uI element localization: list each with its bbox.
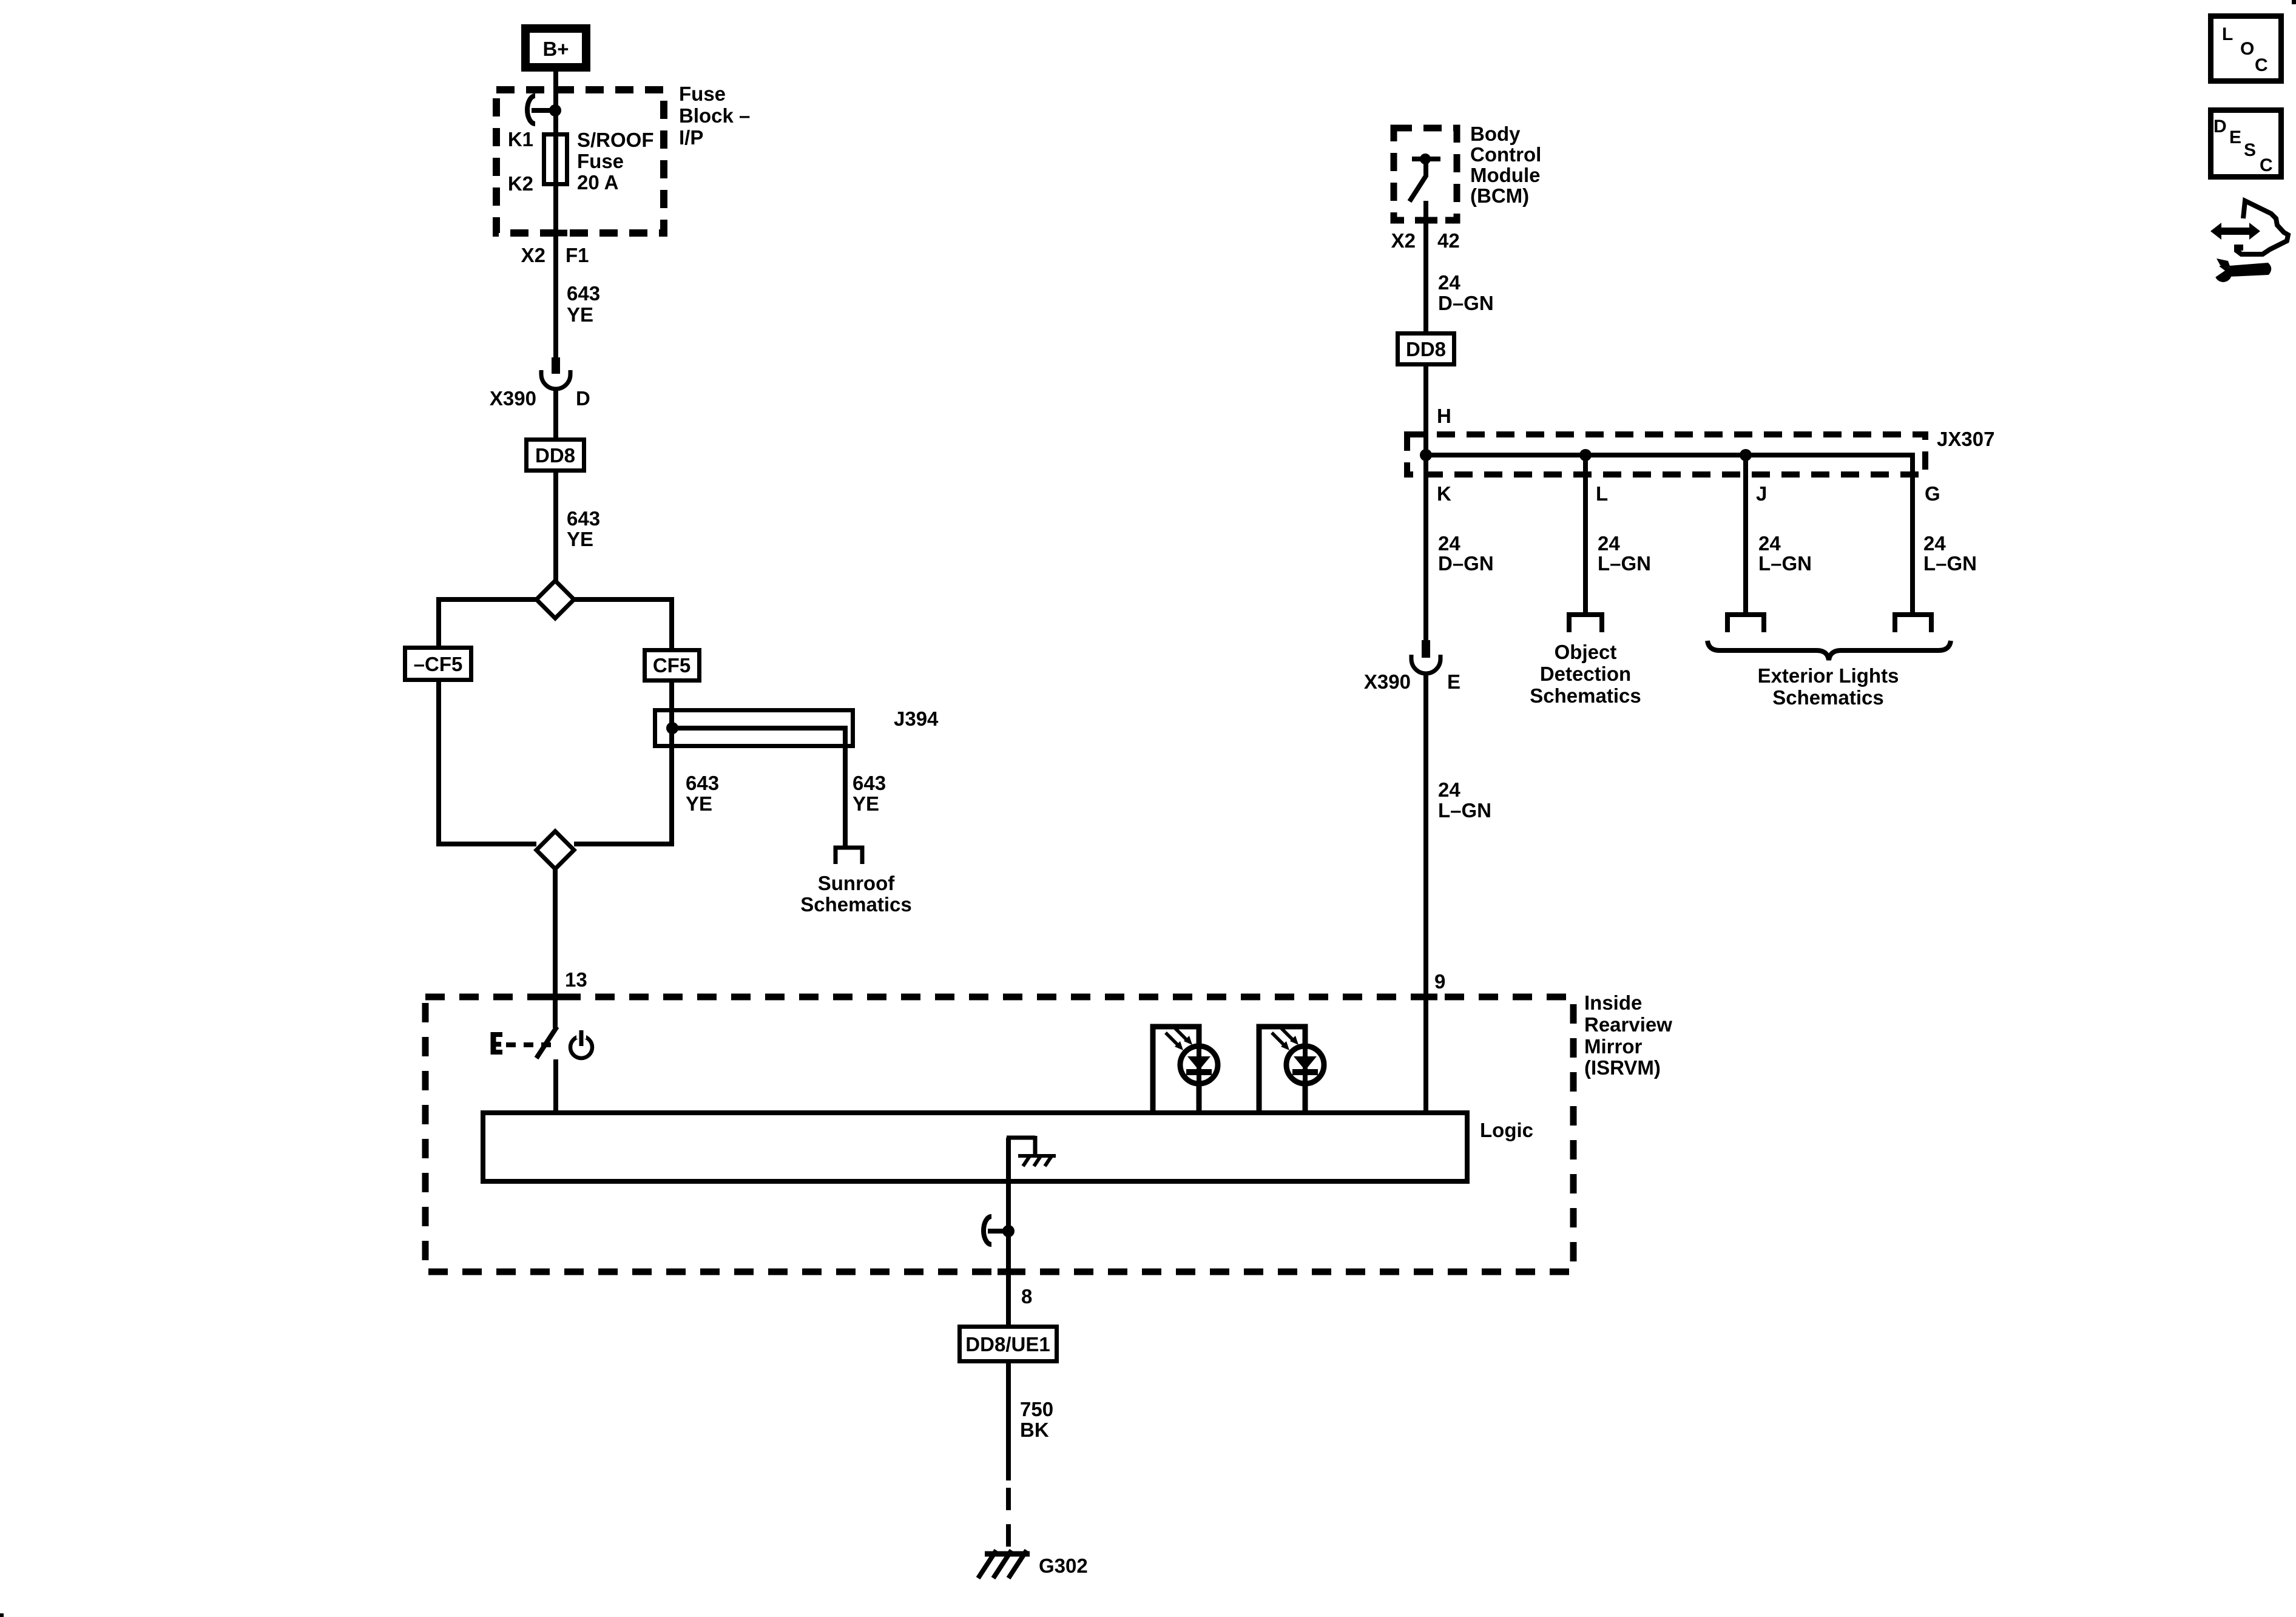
icon wrench <box>2211 258 2271 282</box>
actuator dashed link <box>506 1042 551 1047</box>
svg-text:L: L <box>2222 24 2233 44</box>
wire L to object detection <box>1583 455 1588 613</box>
label Inside Rearview Mirror (ISRVM) <box>1584 991 1672 1079</box>
fuse S/ROOF 20A <box>544 135 567 184</box>
svg-text:L: L <box>1596 482 1608 505</box>
logic box <box>483 1113 1467 1181</box>
svg-text:(ISRVM): (ISRVM) <box>1584 1056 1661 1079</box>
connector to object detection <box>1569 615 1602 632</box>
svg-text:L–GN: L–GN <box>1758 552 1812 575</box>
wire E to ISRVM pin 9 <box>1423 673 1428 1113</box>
svg-text:DD8: DD8 <box>535 444 575 467</box>
power feed B+ box <box>525 29 586 67</box>
svg-text:Fuse: Fuse <box>577 150 624 172</box>
label Exterior Lights Schematics <box>1758 664 1899 709</box>
svg-text:J: J <box>1756 482 1767 505</box>
svg-text:Schematics: Schematics <box>1530 684 1641 707</box>
svg-text:Inside: Inside <box>1584 991 1642 1014</box>
svg-text:X2: X2 <box>521 244 545 266</box>
label 24 L-GN (J) <box>1758 532 1812 575</box>
svg-text:24: 24 <box>1438 271 1460 294</box>
junction dot J394 <box>666 722 678 734</box>
junction dot fuse feed <box>549 104 561 116</box>
fuse code -CF5 box <box>405 648 471 680</box>
svg-text:H: H <box>1437 405 1451 427</box>
wire left branch upper <box>439 599 536 646</box>
wire left branch lower <box>439 682 536 844</box>
svg-text:C: C <box>2260 155 2273 175</box>
label Fuse Block - I/P <box>679 83 750 149</box>
svg-text:Object: Object <box>1555 641 1617 663</box>
svg-text:X390: X390 <box>1364 670 1411 693</box>
svg-text:K1: K1 <box>508 128 533 150</box>
wire DD8 to diamond <box>553 473 558 581</box>
icon DESC <box>2211 110 2281 177</box>
tick wire 42 crosses BCM border <box>1415 217 1437 224</box>
svg-text:JX307: JX307 <box>1937 428 1994 450</box>
svg-text:E: E <box>2229 127 2241 147</box>
connector to exterior lights (G) <box>1895 615 1931 632</box>
wire right branch lower <box>574 682 672 844</box>
svg-text:Schematics: Schematics <box>800 893 911 916</box>
label 750 BK <box>1020 1398 1053 1441</box>
junction block JX307 dashed box <box>1407 434 1925 474</box>
internal ground symbol <box>1007 1136 1056 1166</box>
tick wire 13 crosses ISRVM border <box>544 994 567 1001</box>
wire right branch upper <box>574 599 672 648</box>
ground G302 <box>978 1550 1030 1578</box>
splice code DD8 box (BCM branch) <box>1398 334 1454 365</box>
wire below switch to logic <box>553 1059 558 1113</box>
connector to sunroof schematics <box>836 848 862 864</box>
label 643 YE (3) <box>686 772 719 815</box>
svg-text:X390: X390 <box>490 387 536 410</box>
dashed wire to G302 <box>1006 1488 1011 1548</box>
ISRVM dashed box <box>425 997 1573 1272</box>
label 24 D-GN (K) <box>1438 532 1494 575</box>
splice code DD8 box <box>527 440 584 471</box>
BCM output driver switch <box>1410 154 1440 201</box>
wire DD8/UE1 to ground <box>1006 1363 1011 1480</box>
fuse code CF5 box <box>645 650 700 681</box>
label 24 L-GN (E) <box>1438 778 1491 822</box>
svg-text:Sunroof: Sunroof <box>818 872 895 894</box>
svg-text:CF5: CF5 <box>653 654 690 677</box>
svg-text:24: 24 <box>1923 532 1946 555</box>
svg-text:8: 8 <box>1021 1285 1032 1308</box>
svg-text:B+: B+ <box>542 38 569 60</box>
svg-text:Body: Body <box>1470 123 1521 145</box>
svg-text:750: 750 <box>1020 1398 1053 1420</box>
svg-text:643: 643 <box>567 507 600 530</box>
wire B+ down through fuse to connector X390 <box>553 72 558 359</box>
corner mark bottom left <box>0 1613 4 1617</box>
connector to exterior lights (J) <box>1727 615 1764 632</box>
JX307 bus wire <box>1426 455 1913 613</box>
svg-text:24: 24 <box>1438 778 1460 801</box>
svg-text:E: E <box>1447 670 1460 693</box>
svg-text:F1: F1 <box>566 244 589 266</box>
wire BCM pin 42 <box>1423 201 1428 334</box>
BCM dashed box <box>1394 128 1457 220</box>
svg-text:Exterior Lights: Exterior Lights <box>1758 664 1899 687</box>
svg-text:S: S <box>2244 140 2256 160</box>
svg-text:–CF5: –CF5 <box>414 653 463 675</box>
svg-text:Rearview: Rearview <box>1584 1013 1672 1036</box>
svg-text:24: 24 <box>1758 532 1781 555</box>
junction dot K <box>1420 449 1432 461</box>
svg-text:S/ROOF: S/ROOF <box>577 129 654 151</box>
fuse block I/P dashed box <box>496 90 664 233</box>
connector X390 pin D <box>541 357 570 389</box>
svg-text:K: K <box>1437 482 1451 505</box>
fuse clip symbol <box>527 96 535 124</box>
label 24 L-GN (G) <box>1923 532 1977 575</box>
svg-text:J394: J394 <box>894 707 939 730</box>
svg-text:20 A: 20 A <box>577 171 618 194</box>
svg-text:643: 643 <box>853 772 886 794</box>
svg-text:C: C <box>2255 55 2268 75</box>
svg-text:Fuse: Fuse <box>679 83 726 105</box>
icon data link connector outline <box>2237 201 2288 254</box>
svg-text:YE: YE <box>686 792 712 815</box>
svg-text:Logic: Logic <box>1480 1119 1533 1141</box>
wire X390 to DD8 <box>553 389 558 440</box>
brace exterior lights <box>1707 641 1951 660</box>
svg-text:G302: G302 <box>1039 1555 1088 1577</box>
svg-text:I/P: I/P <box>679 126 703 149</box>
svg-text:BK: BK <box>1020 1419 1049 1441</box>
wire J to exterior lights <box>1743 455 1748 613</box>
power symbol <box>570 1030 592 1058</box>
wire H to JX307 <box>1423 365 1428 455</box>
label 643 YE (1) <box>567 282 600 326</box>
label 643 YE (4) <box>853 772 886 815</box>
svg-text:(BCM): (BCM) <box>1470 184 1529 207</box>
label Body Control Module (BCM) <box>1470 123 1541 207</box>
svg-text:L–GN: L–GN <box>1438 799 1491 822</box>
label Object Detection Schematics <box>1530 641 1641 707</box>
junction dot J <box>1740 449 1752 461</box>
corner mark top right <box>2292 0 2296 4</box>
J394 bus wire to sunroof feed <box>672 728 845 847</box>
diamond splice bottom <box>536 831 574 869</box>
splice pack J394 box <box>655 711 853 746</box>
svg-text:9: 9 <box>1434 970 1445 993</box>
ground wire from logic box <box>1006 1138 1011 1327</box>
icon double arrow <box>2210 223 2260 240</box>
diamond splice top <box>536 581 574 618</box>
svg-text:D: D <box>2213 116 2227 137</box>
photodiode left <box>1153 1027 1218 1113</box>
label 24 L-GN (L) <box>1598 532 1651 575</box>
svg-text:X2: X2 <box>1391 229 1416 252</box>
junction dot ground wire <box>1002 1225 1015 1237</box>
svg-text:K2: K2 <box>508 172 533 195</box>
connector code DD8/UE1 box <box>960 1327 1057 1362</box>
icon LOC <box>2211 16 2281 81</box>
svg-text:L–GN: L–GN <box>1923 552 1977 575</box>
svg-text:O: O <box>2240 39 2254 59</box>
svg-text:G: G <box>1925 482 1940 505</box>
svg-text:Control: Control <box>1470 143 1541 166</box>
svg-text:D: D <box>576 387 590 410</box>
switch actuator E bracket <box>491 1032 502 1055</box>
svg-text:D–GN: D–GN <box>1438 292 1494 314</box>
svg-text:YE: YE <box>567 528 593 550</box>
label S/ROOF Fuse 20 A <box>577 129 654 194</box>
connector clip on ground wire <box>984 1217 991 1244</box>
wire K to X390 E <box>1423 455 1428 641</box>
photodiode right <box>1259 1027 1324 1113</box>
svg-text:24: 24 <box>1598 532 1620 555</box>
mirror on/off switch blade <box>536 1027 557 1058</box>
svg-text:YE: YE <box>567 303 593 326</box>
label 643 YE (2) <box>567 507 600 550</box>
svg-text:Schematics: Schematics <box>1772 686 1883 709</box>
svg-text:Module: Module <box>1470 164 1540 186</box>
svg-text:643: 643 <box>567 282 600 305</box>
wire to ISRVM pin 13 <box>553 869 558 1028</box>
svg-text:Detection: Detection <box>1540 663 1631 685</box>
svg-text:42: 42 <box>1437 229 1460 252</box>
tick ground wire crosses ISRVM border <box>998 1269 1020 1275</box>
svg-text:YE: YE <box>853 792 879 815</box>
svg-text:643: 643 <box>686 772 719 794</box>
tick wire exits fuse block <box>544 230 567 237</box>
junction dot L <box>1579 449 1592 461</box>
svg-text:D–GN: D–GN <box>1438 552 1494 575</box>
svg-text:DD8: DD8 <box>1406 338 1446 360</box>
svg-text:24: 24 <box>1438 532 1460 555</box>
svg-text:DD8/UE1: DD8/UE1 <box>965 1333 1050 1355</box>
tick wire 9 crosses ISRVM border <box>1415 994 1437 1001</box>
label 24 D-GN (1) <box>1438 271 1494 314</box>
connector X390 pin E <box>1411 640 1440 673</box>
label Sunroof Schematics <box>800 872 911 916</box>
svg-text:13: 13 <box>565 968 587 991</box>
svg-text:L–GN: L–GN <box>1598 552 1651 575</box>
svg-text:Mirror: Mirror <box>1584 1035 1643 1058</box>
svg-text:Block –: Block – <box>679 104 750 127</box>
